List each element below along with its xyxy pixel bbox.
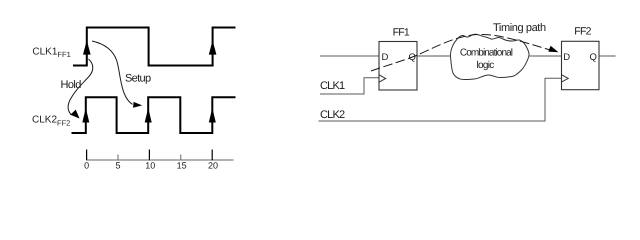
wire FF2 Q output [599, 55, 616, 57]
CLK2 rising-edge arrow 3 [209, 108, 216, 123]
svg-text:FF1: FF1 [393, 27, 410, 39]
svg-text:Q: Q [590, 52, 597, 63]
svg-text:Hold: Hold [61, 79, 82, 91]
svg-text:CLK1: CLK1 [320, 80, 345, 92]
svg-text:Combinational: Combinational [460, 48, 513, 59]
svg-text:Timing path: Timing path [493, 22, 546, 34]
CLK1 waveform [73, 28, 236, 66]
tick 10 [148, 150, 150, 161]
svg-text:0: 0 [84, 161, 89, 171]
combinational logic cloud [450, 34, 529, 79]
hold arrowhead [70, 110, 79, 119]
svg-text:FF2: FF2 [574, 26, 591, 38]
svg-text:D: D [382, 52, 389, 63]
setup annotation curve [92, 41, 133, 104]
svg-text:15: 15 [177, 161, 187, 171]
svg-text:10: 10 [145, 161, 155, 171]
hold annotation curve [68, 59, 93, 115]
wire CLK2 to FF2 clock [319, 78, 562, 121]
CLK2 rising-edge arrow 1 [82, 108, 89, 123]
flip-flop U1 (FF1) box [379, 42, 417, 91]
timing path arrowhead [548, 46, 558, 52]
CLK2 rising-edge arrow 2 [145, 108, 152, 123]
svg-text:20: 20 [208, 161, 218, 171]
time axis [86, 159, 233, 161]
flip-flop U2 (FF2) box [562, 41, 600, 89]
svg-text:Setup: Setup [125, 73, 151, 85]
CLK1 rising-edge arrow 1 [83, 40, 91, 54]
wire CLK1 to FF1 clock [320, 78, 379, 94]
CLK1 rising-edge arrow 2 [209, 40, 217, 54]
svg-text:CLK2: CLK2 [320, 109, 345, 121]
CLK2 waveform [72, 97, 236, 133]
FF2 clock triangle [562, 75, 569, 82]
svg-text:5: 5 [115, 161, 120, 171]
tick 20 [211, 150, 213, 161]
svg-text:logic: logic [476, 60, 494, 71]
wire FF1 Q to combinational logic to FF2 D [417, 55, 562, 57]
FF1 clock triangle [379, 75, 386, 82]
timing path dashed arrow [371, 34, 553, 71]
svg-text:D: D [563, 52, 570, 63]
wire D input to FF1 [320, 55, 379, 57]
tick 5 [117, 155, 119, 161]
setup arrowhead [133, 102, 142, 108]
tick 0 [86, 150, 88, 161]
tick 15 [180, 155, 182, 161]
